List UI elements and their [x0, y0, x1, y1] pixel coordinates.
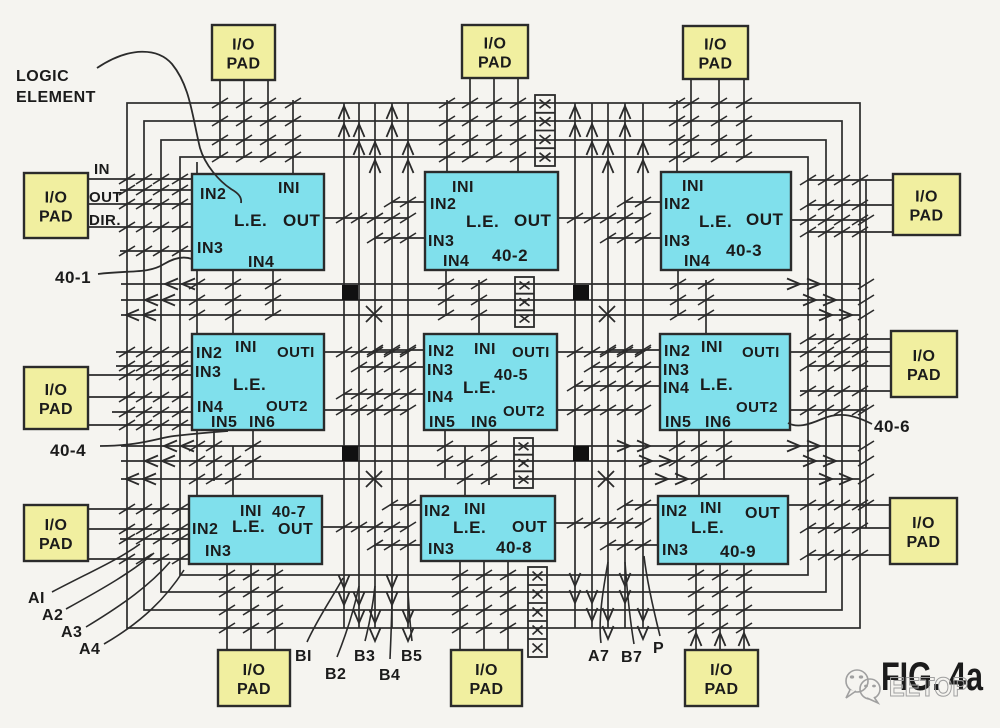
junction block at (573,446) [573, 446, 589, 461]
svg-text:IN2: IN2 [424, 503, 450, 520]
wire IN3 40-6 [592, 366, 660, 368]
svg-text:IN2: IN2 [664, 343, 690, 360]
wire top-right pad lead x=691 [690, 80, 692, 158]
wire IN4 lead block 40-1 [272, 270, 274, 316]
I/O pad top-middle [462, 25, 528, 78]
svg-text:L.E.: L.E. [466, 212, 499, 231]
wire OUT 40-2 [558, 217, 643, 219]
wire horizontal channel row1-2 y=284 [121, 283, 860, 285]
hatch marks at wire crossings [212, 98, 228, 108]
svg-text:L.E.: L.E. [691, 518, 724, 537]
wire IN4 lead block 40-2 [445, 270, 447, 316]
svg-text:L.E.: L.E. [234, 211, 267, 230]
svg-text:I/O: I/O [475, 662, 498, 679]
svg-text:I/O: I/O [45, 190, 68, 207]
I/O pad left-3 [24, 505, 88, 561]
wire IN4 40-4 [112, 411, 192, 413]
X switch mark at (607,314) [599, 306, 615, 322]
svg-text:LOGIC: LOGIC [16, 68, 69, 85]
wire top-middle pad lead x=494 [493, 78, 495, 158]
I/O pad left-2 [24, 367, 88, 429]
svg-text:40-9: 40-9 [720, 542, 756, 561]
svg-text:DIR.: DIR. [89, 212, 121, 229]
wire ring 4 [180, 157, 808, 575]
logic element 40-1 [192, 174, 324, 270]
svg-text:IN4: IN4 [684, 253, 710, 270]
leader curve 40-1 [98, 258, 192, 274]
wire IN5 lead block 40-4 [213, 430, 215, 481]
I/O pad top-right [683, 26, 748, 79]
wire IN4 40-6 [575, 385, 660, 387]
wire IN1 lead block 40-5 [478, 280, 480, 334]
wire OUT 40-8 [555, 522, 643, 524]
logic element 40-2 [425, 172, 558, 270]
svg-text:PAD: PAD [909, 208, 943, 225]
wire IN3 40-5 [359, 366, 424, 368]
svg-text:INI: INI [464, 501, 486, 518]
wire IN5 lead block 40-6 [676, 430, 678, 478]
wire IN2 40-4 [116, 351, 192, 353]
svg-text:PAD: PAD [704, 681, 738, 698]
wire IN5 lead block 40-5 [444, 430, 446, 478]
svg-text:40-2: 40-2 [492, 246, 528, 265]
I/O pad bottom-right [685, 650, 758, 706]
leader curves B1-B5 [307, 578, 343, 642]
svg-text:OUT: OUT [89, 189, 122, 206]
svg-text:IN: IN [94, 161, 110, 178]
svg-text:I/O: I/O [915, 189, 938, 206]
svg-text:IN3: IN3 [195, 364, 221, 381]
wire OUT1 40-6 to right pad2 [790, 351, 891, 353]
svg-text:PAD: PAD [906, 534, 940, 551]
wire left margin vertical x=197 [196, 162, 198, 559]
svg-text:OUT2: OUT2 [266, 398, 308, 415]
logic element 40-6 [660, 334, 790, 430]
wire right pad1 c [808, 231, 893, 233]
svg-text:B5: B5 [401, 648, 422, 665]
svg-text:IN6: IN6 [705, 414, 731, 431]
svg-text:IN4: IN4 [427, 389, 453, 406]
wire OUT1 40-4 [324, 351, 408, 353]
svg-text:40-6: 40-6 [874, 417, 910, 436]
svg-text:INI: INI [682, 178, 704, 195]
svg-text:40-8: 40-8 [496, 538, 532, 557]
svg-text:OUT: OUT [283, 211, 321, 230]
wire vertical channel col2-3 x=575 [574, 103, 576, 628]
wire IN1 lead block 40-7 [232, 446, 234, 496]
svg-text:B2: B2 [325, 666, 346, 683]
svg-text:IN3: IN3 [197, 240, 223, 257]
wire left pad2 a [88, 374, 192, 376]
svg-text:IN3: IN3 [205, 543, 231, 560]
wire top-middle pad lead x=470 [469, 78, 471, 158]
wire ring 3 [161, 140, 826, 592]
svg-text:IN3: IN3 [427, 362, 453, 379]
svg-text:IN3: IN3 [428, 233, 454, 250]
svg-text:IN3: IN3 [428, 541, 454, 558]
svg-text:OUT: OUT [278, 521, 313, 538]
wire bottom-right pad lead x=720 [719, 564, 721, 650]
svg-text:OUT: OUT [745, 505, 780, 522]
direction arrows on routing wires [339, 106, 350, 119]
wire bottom-left pad lead x=275 [274, 564, 276, 650]
svg-text:PAD: PAD [478, 55, 512, 72]
wire IN1 lead block 40-2 [446, 100, 448, 172]
wire left pad1 DIR [88, 226, 192, 228]
svg-text:OUT: OUT [514, 211, 552, 230]
wire vertical channel col1-2 x=408 [407, 103, 409, 628]
svg-text:INI: INI [474, 341, 496, 358]
X-box column bottom [528, 567, 547, 657]
wire right pad2 a [808, 338, 891, 340]
wire OUT 40-1 [324, 217, 408, 219]
svg-text:PAD: PAD [237, 681, 271, 698]
svg-text:A7: A7 [588, 648, 609, 665]
wire left pad3 c [88, 558, 189, 560]
svg-text:IN5: IN5 [665, 414, 691, 431]
wire IN4 lead block 40-3 [677, 270, 679, 316]
wire left pad2 c [88, 424, 192, 426]
wire left pad2 b [88, 396, 192, 398]
svg-text:I/O: I/O [913, 348, 936, 365]
svg-text:IN3: IN3 [664, 233, 690, 250]
wire right pad2 b [808, 365, 891, 367]
wire left pad3 a [88, 508, 189, 510]
wire left pad3 b [88, 528, 189, 530]
X-box column top [535, 95, 555, 166]
svg-text:I/O: I/O [232, 37, 255, 54]
svg-text:L.E.: L.E. [699, 212, 732, 231]
svg-text:PAD: PAD [698, 56, 732, 73]
svg-text:OUTI: OUTI [742, 344, 780, 361]
leader curve 40-6 [788, 415, 872, 426]
watermark EETOP logo [846, 670, 968, 703]
svg-text:P: P [653, 640, 664, 657]
junction block at (342,285) [342, 285, 358, 300]
wire IN2 40-5 [375, 349, 424, 351]
wire ring 2 [144, 121, 842, 610]
svg-text:40-7: 40-7 [272, 504, 306, 521]
wire IN6 lead block 40-4 [252, 430, 254, 478]
svg-text:IN2: IN2 [200, 186, 226, 203]
wire bottom-middle pad lead x=460 [459, 561, 461, 650]
wire IN2 40-1 [120, 189, 192, 191]
junction block at (573,285) [573, 285, 589, 300]
wire vertical channel col1-2 x=344 [343, 103, 345, 628]
wire top-right pad lead x=719 [718, 80, 720, 158]
svg-text:ELEMENT: ELEMENT [16, 89, 96, 106]
wire bottom-middle pad lead x=508 [507, 561, 509, 650]
wire IN2 40-3 [625, 201, 661, 203]
svg-text:IN5: IN5 [211, 414, 237, 431]
wire IN3 40-1 [120, 250, 192, 252]
wire IN1 lead block 40-8 [464, 446, 466, 496]
wire IN3 40-8 [375, 544, 421, 546]
svg-text:PAD: PAD [39, 401, 73, 418]
wire IN1 lead block 40-3 [676, 100, 678, 172]
wire horizontal channel row2-3 y=461 [121, 460, 860, 462]
wire vertical channel col2-3 x=625 [624, 103, 626, 628]
svg-text:PAD: PAD [469, 681, 503, 698]
wire vertical channel col1-2 x=392 [391, 103, 393, 628]
I/O pad right-1 [893, 174, 960, 235]
wire right pad1 b [808, 204, 893, 206]
leader curve 40-4 [100, 431, 228, 446]
X switch mark at (374,479) [366, 471, 382, 487]
svg-text:INI: INI [235, 339, 257, 356]
leader curves A1-A4 [52, 544, 140, 592]
I/O pad bottom-left [218, 650, 290, 706]
wire top-middle pad lead x=518 [517, 78, 519, 172]
wire right pad3 b [808, 527, 890, 529]
svg-text:I/O: I/O [710, 662, 733, 679]
wire vertical channel col2-3 x=643 [642, 103, 644, 628]
svg-text:IN2: IN2 [430, 196, 456, 213]
svg-text:INI: INI [278, 180, 300, 197]
svg-text:IN6: IN6 [471, 414, 497, 431]
I/O pad bottom-middle [451, 650, 522, 706]
wire ring 1 [127, 103, 860, 628]
wire IN2 40-9 [625, 504, 658, 506]
svg-text:INI: INI [452, 179, 474, 196]
wire bottom-middle pad lead x=484 [483, 561, 485, 650]
logic element 40-9 [658, 496, 788, 564]
wire IN3 40-2 [375, 237, 425, 239]
svg-text:EETOP: EETOP [889, 672, 968, 702]
svg-text:IN4: IN4 [443, 253, 469, 270]
svg-text:B3: B3 [354, 648, 375, 665]
svg-text:I/O: I/O [45, 517, 68, 534]
svg-text:PAD: PAD [907, 367, 941, 384]
wire IN4 40-5 [344, 393, 424, 395]
wire vertical channel col1-2 x=359 [358, 103, 360, 628]
svg-text:IN2: IN2 [661, 503, 687, 520]
wire right pad2 c [800, 390, 891, 392]
wire OUT 40-3 [791, 219, 866, 221]
junction block at (342,446) [342, 446, 358, 461]
svg-text:40-4: 40-4 [50, 441, 86, 460]
wire top-left pad lead x=244 [243, 80, 245, 158]
wire bottom-right pad lead x=696 [695, 564, 697, 650]
svg-text:IN3: IN3 [663, 362, 689, 379]
wire IN2 40-8 [390, 504, 421, 506]
logic element 40-8 [421, 496, 555, 561]
svg-text:IN3: IN3 [662, 542, 688, 559]
wire IN2 40-6 [608, 349, 660, 351]
X-box column mid row1-2 [515, 277, 534, 327]
wire IN6 lead block 40-5 [488, 430, 490, 485]
svg-text:IN6: IN6 [249, 414, 275, 431]
X switch mark at (374,314) [366, 306, 382, 322]
svg-text:A2: A2 [42, 607, 63, 624]
svg-text:PAD: PAD [226, 56, 260, 73]
svg-text:OUT: OUT [746, 210, 784, 229]
leader curve LOGIC ELEMENT [97, 52, 241, 203]
svg-text:INI: INI [701, 339, 723, 356]
I/O pad right-2 [891, 331, 957, 397]
svg-text:L.E.: L.E. [463, 378, 496, 397]
wire bottom-right pad lead x=744 [743, 564, 745, 650]
X switch mark at (606,479) [598, 471, 614, 487]
wire right pad3 c [808, 554, 890, 556]
svg-text:L.E.: L.E. [700, 375, 733, 394]
svg-text:I/O: I/O [912, 515, 935, 532]
wire horizontal channel row2-3 y=479 [121, 478, 860, 480]
svg-text:PAD: PAD [39, 209, 73, 226]
X-box column mid row2-3 [514, 438, 533, 488]
svg-text:OUT2: OUT2 [503, 403, 545, 420]
wire bottom-left pad lead x=227 [226, 564, 228, 650]
wire IN3 40-9 [608, 544, 658, 546]
svg-text:AI: AI [28, 590, 45, 607]
svg-text:IN4: IN4 [248, 254, 274, 271]
svg-text:IN2: IN2 [664, 196, 690, 213]
wire horizontal channel row1-2 y=315 [121, 314, 860, 316]
wire vertical channel col1-2 x=375 [374, 103, 376, 628]
wire OUT2 40-4 [324, 409, 408, 411]
wire OUT2 40-5 [557, 409, 643, 411]
I/O pad right-3 [890, 498, 957, 564]
svg-text:BI: BI [295, 648, 312, 665]
svg-text:INI: INI [700, 500, 722, 517]
wire bottom-left pad lead x=251 [250, 564, 252, 650]
svg-text:B7: B7 [621, 649, 642, 666]
svg-text:I/O: I/O [243, 662, 266, 679]
svg-text:B4: B4 [379, 667, 400, 684]
svg-text:L.E.: L.E. [453, 518, 486, 537]
wire IN1 lead block 40-9 [698, 430, 700, 496]
svg-text:40-1: 40-1 [55, 268, 91, 287]
wire IN1 lead block 40-6 [705, 280, 707, 334]
svg-text:I/O: I/O [45, 382, 68, 399]
svg-text:A4: A4 [79, 641, 100, 658]
wire IN1 lead block 40-4 [232, 268, 234, 334]
svg-text:IN5: IN5 [429, 414, 455, 431]
svg-text:40-5: 40-5 [494, 367, 528, 384]
wire right margin vertical x=866 [865, 180, 867, 528]
svg-text:L.E.: L.E. [233, 375, 266, 394]
wire IN3 40-3 [608, 237, 661, 239]
wire left pad1 IN [88, 178, 192, 180]
svg-text:OUTI: OUTI [277, 344, 315, 361]
svg-text:OUT: OUT [512, 519, 547, 536]
wire vertical channel col2-3 x=592 [591, 103, 593, 628]
wire horizontal channel row1-2 y=300 [121, 299, 860, 301]
logic element 40-4 [192, 334, 324, 430]
svg-text:I/O: I/O [484, 36, 507, 53]
wire OUT2 40-6 [790, 409, 866, 411]
wire OUT 40-9 to right pad3 [788, 504, 890, 506]
wire IN2 40-2 [392, 201, 425, 203]
wire OUT 40-7 [322, 526, 408, 528]
wire left pad1 OUT [88, 203, 192, 205]
svg-text:OUTI: OUTI [512, 344, 550, 361]
I/O pad left-1 [24, 173, 88, 238]
wire horizontal channel row2-3 y=446 [121, 445, 860, 447]
wire OUT1 40-5 [557, 351, 643, 353]
svg-text:PAD: PAD [39, 536, 73, 553]
wire IN3 40-4 [116, 365, 192, 367]
svg-text:40-3: 40-3 [726, 241, 762, 260]
logic element 40-3 [661, 172, 791, 270]
I/O pad top-left [212, 25, 275, 80]
wire top-right pad lead x=744 [743, 80, 745, 158]
svg-text:L.E.: L.E. [232, 517, 265, 536]
logic element 40-5 [424, 334, 557, 430]
svg-text:A3: A3 [61, 624, 82, 641]
svg-text:IN2: IN2 [196, 345, 222, 362]
wire IN6 lead block 40-6 [723, 430, 725, 480]
wire vertical channel col2-3 x=608 [607, 103, 609, 628]
svg-text:I/O: I/O [704, 37, 727, 54]
logic element 40-7 [189, 496, 322, 564]
wire top-left pad lead x=220 [219, 80, 221, 158]
svg-text:OUT2: OUT2 [736, 399, 778, 416]
svg-text:IN2: IN2 [192, 521, 218, 538]
wire IN1 lead block 40-1 [292, 100, 294, 174]
wire right pad1 a [808, 179, 893, 181]
wire top-left pad lead x=268 [267, 80, 269, 158]
wire IN2b 40-7 [120, 538, 189, 540]
svg-text:IN2: IN2 [428, 343, 454, 360]
svg-text:IN4: IN4 [663, 380, 689, 397]
leader curves A7 B7 P [600, 562, 608, 643]
